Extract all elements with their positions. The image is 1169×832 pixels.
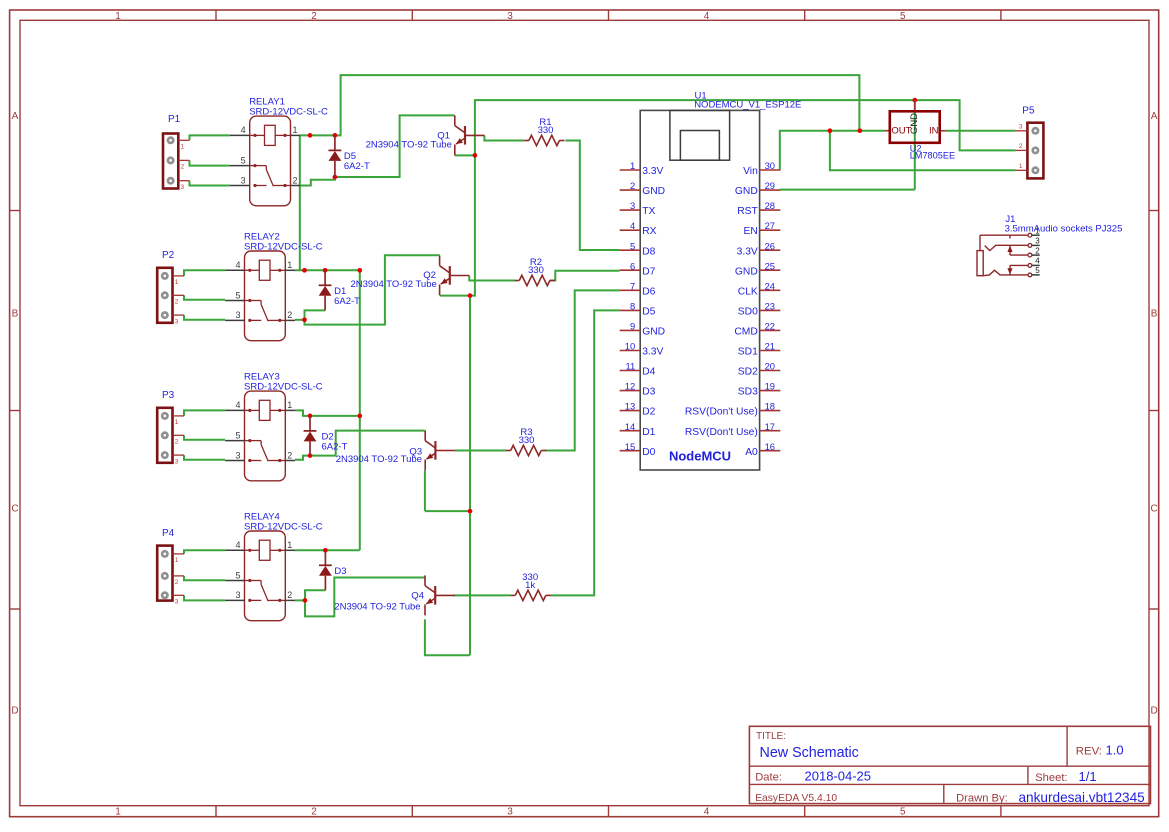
junction bbox=[333, 175, 338, 180]
junction bbox=[323, 548, 328, 553]
svg-text:5: 5 bbox=[900, 807, 906, 818]
Q3 label bbox=[336, 447, 423, 465]
svg-text:2: 2 bbox=[175, 439, 179, 446]
svg-text:12: 12 bbox=[625, 381, 635, 392]
svg-text:D: D bbox=[1150, 706, 1157, 717]
svg-text:2: 2 bbox=[287, 450, 292, 460]
wire bbox=[475, 100, 1016, 155]
resistor R1 bbox=[524, 135, 564, 145]
D3 label bbox=[334, 566, 346, 577]
svg-text:330: 330 bbox=[528, 265, 544, 276]
svg-text:4: 4 bbox=[630, 220, 635, 231]
svg-text:11: 11 bbox=[625, 361, 635, 372]
D1 label bbox=[334, 286, 360, 307]
svg-text:2N3904 TO-92 Tube: 2N3904 TO-92 Tube bbox=[351, 279, 437, 290]
svg-text:Q4: Q4 bbox=[411, 590, 424, 601]
svg-text:2: 2 bbox=[311, 11, 317, 22]
svg-text:D8: D8 bbox=[642, 246, 655, 257]
junction bbox=[302, 268, 307, 273]
svg-text:3: 3 bbox=[1035, 237, 1040, 246]
svg-text:4: 4 bbox=[235, 400, 240, 410]
svg-text:14: 14 bbox=[625, 421, 635, 432]
svg-text:5: 5 bbox=[241, 155, 246, 165]
svg-text:5: 5 bbox=[900, 11, 906, 22]
svg-text:3.3V: 3.3V bbox=[737, 246, 758, 257]
svg-text:RSV(Don't Use): RSV(Don't Use) bbox=[685, 407, 758, 418]
svg-text:8: 8 bbox=[630, 301, 635, 312]
svg-text:P4: P4 bbox=[162, 528, 175, 539]
wire bbox=[184, 595, 225, 600]
D5 label bbox=[344, 151, 370, 172]
svg-text:GND: GND bbox=[642, 186, 665, 197]
RELAY4 label bbox=[244, 512, 323, 533]
svg-text:9: 9 bbox=[630, 321, 635, 332]
svg-text:3: 3 bbox=[175, 318, 179, 325]
wire bbox=[305, 255, 440, 324]
svg-text:330: 330 bbox=[538, 125, 554, 136]
title block text bbox=[755, 731, 1145, 805]
U1 label bbox=[694, 91, 801, 111]
wire bbox=[295, 456, 310, 460]
svg-text:D3: D3 bbox=[642, 387, 655, 398]
svg-text:3: 3 bbox=[630, 200, 635, 211]
transistor Q4 bbox=[425, 575, 455, 615]
junction bbox=[308, 414, 313, 419]
svg-text:D1: D1 bbox=[642, 427, 655, 438]
svg-text:16: 16 bbox=[765, 441, 775, 452]
svg-text:2: 2 bbox=[311, 807, 317, 818]
wire bbox=[453, 594, 511, 596]
svg-text:GND: GND bbox=[735, 266, 758, 277]
svg-text:1: 1 bbox=[287, 400, 292, 410]
svg-text:SRD-12VDC-SL-C: SRD-12VDC-SL-C bbox=[249, 107, 328, 118]
svg-text:5: 5 bbox=[630, 240, 635, 251]
wire bbox=[945, 130, 1016, 132]
svg-text:6A2-T: 6A2-T bbox=[344, 161, 370, 172]
svg-text:1: 1 bbox=[115, 11, 121, 22]
svg-text:A: A bbox=[12, 111, 19, 122]
svg-text:28: 28 bbox=[765, 200, 775, 211]
wire bbox=[914, 100, 916, 190]
svg-text:26: 26 bbox=[765, 240, 775, 251]
svg-text:RSV(Don't Use): RSV(Don't Use) bbox=[685, 427, 758, 438]
svg-text:30: 30 bbox=[765, 160, 775, 171]
svg-text:4: 4 bbox=[235, 540, 240, 550]
U2 label bbox=[910, 143, 955, 160]
wire bbox=[455, 450, 507, 452]
connector P2 bbox=[157, 268, 184, 326]
wire bbox=[425, 619, 470, 655]
svg-text:2: 2 bbox=[293, 175, 298, 185]
svg-text:4: 4 bbox=[704, 11, 710, 22]
wire bbox=[184, 315, 225, 320]
wire bbox=[295, 269, 360, 271]
Q2 label bbox=[351, 270, 437, 290]
svg-text:ankurdesai.vbt12345: ankurdesai.vbt12345 bbox=[1019, 790, 1145, 805]
svg-text:1: 1 bbox=[287, 260, 292, 270]
wire bbox=[469, 296, 471, 656]
svg-text:3.3V: 3.3V bbox=[642, 166, 663, 177]
svg-text:2: 2 bbox=[175, 579, 179, 586]
diode D1 bbox=[319, 270, 332, 310]
diode D2 bbox=[304, 416, 317, 456]
junction bbox=[357, 268, 362, 273]
svg-text:Drawn By:: Drawn By: bbox=[956, 792, 1008, 804]
svg-text:6A2-T: 6A2-T bbox=[322, 441, 348, 452]
svg-text:B: B bbox=[12, 309, 19, 320]
svg-text:4: 4 bbox=[704, 807, 710, 818]
svg-text:B: B bbox=[1151, 309, 1158, 320]
svg-text:5: 5 bbox=[235, 290, 240, 300]
svg-text:2018-04-25: 2018-04-25 bbox=[805, 769, 872, 784]
svg-text:5: 5 bbox=[235, 570, 240, 580]
svg-text:EasyEDA V5.4.10: EasyEDA V5.4.10 bbox=[755, 793, 837, 804]
svg-text:10: 10 bbox=[625, 341, 635, 352]
svg-text:Date:: Date: bbox=[755, 772, 782, 784]
svg-text:D3: D3 bbox=[334, 566, 346, 577]
wire bbox=[830, 131, 1016, 171]
wire bbox=[310, 431, 425, 456]
svg-text:RX: RX bbox=[642, 226, 656, 237]
svg-text:7: 7 bbox=[630, 280, 635, 291]
svg-text:19: 19 bbox=[765, 381, 775, 392]
U2 pin names bbox=[891, 113, 938, 137]
connector P5 bbox=[1016, 123, 1044, 179]
wire bbox=[780, 131, 885, 171]
resistor R4 bbox=[511, 590, 551, 600]
svg-text:NodeMCU: NodeMCU bbox=[669, 448, 731, 463]
svg-text:3: 3 bbox=[175, 458, 179, 465]
svg-text:2: 2 bbox=[175, 299, 179, 306]
svg-text:SRD-12VDC-SL-C: SRD-12VDC-SL-C bbox=[244, 242, 323, 253]
connector P3 bbox=[157, 408, 184, 466]
svg-text:IN: IN bbox=[929, 126, 939, 137]
RELAY2 label bbox=[244, 232, 323, 253]
svg-text:SD0: SD0 bbox=[738, 307, 758, 318]
junction bbox=[468, 509, 473, 514]
title block frame bbox=[749, 726, 1150, 803]
diode D3 bbox=[319, 550, 332, 590]
wire bbox=[551, 310, 620, 595]
svg-text:21: 21 bbox=[765, 341, 775, 352]
connector P4 bbox=[157, 546, 184, 606]
wire bbox=[184, 410, 225, 416]
svg-text:27: 27 bbox=[765, 220, 775, 231]
svg-text:2: 2 bbox=[630, 180, 635, 191]
transistor Q2 bbox=[440, 256, 470, 296]
svg-text:3: 3 bbox=[507, 11, 513, 22]
svg-text:3: 3 bbox=[1019, 123, 1023, 130]
junction bbox=[473, 153, 478, 158]
svg-text:3: 3 bbox=[241, 175, 246, 185]
relay RELAY1 bbox=[230, 116, 301, 206]
wire bbox=[295, 319, 305, 321]
relay RELAY4 bbox=[225, 531, 295, 621]
svg-text:3: 3 bbox=[235, 310, 240, 320]
svg-text:2: 2 bbox=[1035, 246, 1040, 255]
svg-text:CLK: CLK bbox=[738, 286, 758, 297]
svg-text:P1: P1 bbox=[168, 114, 181, 125]
svg-text:17: 17 bbox=[765, 421, 775, 432]
svg-text:Sheet:: Sheet: bbox=[1035, 772, 1067, 784]
wire bbox=[780, 189, 915, 191]
svg-text:3.5mmAudio sockets PJ325: 3.5mmAudio sockets PJ325 bbox=[1005, 223, 1123, 234]
svg-text:5: 5 bbox=[1035, 266, 1040, 275]
svg-text:D2: D2 bbox=[642, 407, 655, 418]
wire bbox=[335, 115, 455, 177]
svg-text:D6: D6 bbox=[642, 286, 655, 297]
svg-text:1k: 1k bbox=[525, 580, 535, 591]
wire bbox=[295, 549, 360, 551]
svg-text:15: 15 bbox=[625, 441, 635, 452]
junction bbox=[303, 598, 308, 603]
svg-text:2N3904 TO-92 Tube: 2N3904 TO-92 Tube bbox=[334, 602, 420, 613]
svg-text:SRD-12VDC-SL-C: SRD-12VDC-SL-C bbox=[244, 382, 323, 393]
svg-text:5: 5 bbox=[235, 430, 240, 440]
wire bbox=[184, 576, 225, 580]
svg-text:4: 4 bbox=[1035, 257, 1040, 266]
svg-text:GND: GND bbox=[735, 186, 758, 197]
svg-text:GND: GND bbox=[642, 327, 665, 338]
svg-text:2N3904 TO-92 Tube: 2N3904 TO-92 Tube bbox=[336, 454, 422, 465]
wire bbox=[550, 271, 620, 281]
svg-text:NODEMCU_V1_ESP12E: NODEMCU_V1_ESP12E bbox=[694, 100, 801, 111]
svg-text:4: 4 bbox=[235, 260, 240, 270]
svg-text:1: 1 bbox=[1019, 163, 1023, 170]
svg-text:2: 2 bbox=[287, 590, 292, 600]
wire bbox=[305, 310, 326, 319]
wire bbox=[184, 270, 225, 276]
junction bbox=[468, 293, 473, 298]
svg-text:SRD-12VDC-SL-C: SRD-12VDC-SL-C bbox=[244, 522, 323, 533]
svg-text:1: 1 bbox=[175, 279, 179, 286]
svg-text:REV:: REV: bbox=[1076, 745, 1102, 757]
svg-text:P2: P2 bbox=[162, 250, 175, 261]
svg-text:1: 1 bbox=[630, 160, 635, 171]
svg-text:D: D bbox=[11, 706, 18, 717]
RELAY3 label bbox=[244, 372, 323, 393]
svg-text:A: A bbox=[1151, 111, 1158, 122]
svg-text:C: C bbox=[1150, 504, 1157, 515]
RELAY1 label bbox=[249, 97, 328, 118]
wire bbox=[545, 290, 620, 450]
svg-text:22: 22 bbox=[765, 321, 775, 332]
junction bbox=[912, 98, 917, 103]
transistor Q3 bbox=[425, 431, 455, 471]
Q4 label bbox=[334, 590, 424, 612]
wire bbox=[184, 435, 225, 440]
svg-text:3: 3 bbox=[507, 807, 513, 818]
wire bbox=[359, 270, 361, 550]
svg-text:2: 2 bbox=[287, 310, 292, 320]
svg-text:6: 6 bbox=[630, 260, 635, 271]
svg-text:2: 2 bbox=[1019, 143, 1023, 150]
svg-text:330: 330 bbox=[519, 435, 535, 446]
junction bbox=[333, 133, 338, 138]
svg-text:6A2-T: 6A2-T bbox=[334, 296, 360, 307]
svg-text:23: 23 bbox=[765, 301, 775, 312]
svg-text:New Schematic: New Schematic bbox=[760, 745, 859, 761]
wire bbox=[300, 177, 335, 186]
svg-text:1: 1 bbox=[287, 540, 292, 550]
svg-text:1.0: 1.0 bbox=[1106, 742, 1124, 757]
D2 label bbox=[322, 432, 348, 453]
svg-text:P3: P3 bbox=[162, 390, 175, 401]
wire bbox=[424, 471, 426, 512]
svg-text:1/1: 1/1 bbox=[1079, 769, 1097, 784]
wire bbox=[295, 599, 305, 601]
R2 label bbox=[528, 257, 544, 276]
wire bbox=[425, 510, 470, 512]
svg-text:D7: D7 bbox=[642, 266, 655, 277]
wire bbox=[440, 295, 470, 297]
svg-text:TX: TX bbox=[642, 206, 655, 217]
Q1 label bbox=[366, 131, 452, 151]
diode D5 bbox=[329, 135, 342, 177]
wire bbox=[565, 141, 619, 251]
svg-text:1: 1 bbox=[175, 419, 179, 426]
svg-text:TITLE:: TITLE: bbox=[756, 731, 786, 742]
regulator U2 body bbox=[885, 100, 946, 143]
wire bbox=[305, 590, 325, 600]
R3 label bbox=[519, 427, 535, 446]
svg-text:D5: D5 bbox=[642, 307, 655, 318]
junction bbox=[857, 128, 862, 133]
svg-text:SD1: SD1 bbox=[738, 347, 758, 358]
svg-text:4: 4 bbox=[241, 125, 246, 135]
svg-text:EN: EN bbox=[743, 226, 757, 237]
wire bbox=[305, 578, 425, 617]
junction bbox=[357, 414, 362, 419]
transistor Q1 bbox=[455, 115, 485, 155]
resistor R3 bbox=[506, 445, 546, 455]
svg-text:3: 3 bbox=[235, 590, 240, 600]
svg-text:1: 1 bbox=[293, 125, 298, 135]
wire bbox=[190, 181, 230, 186]
junction bbox=[828, 128, 833, 133]
wire bbox=[300, 75, 859, 135]
svg-text:3: 3 bbox=[181, 184, 185, 191]
svg-text:3: 3 bbox=[175, 599, 179, 606]
wire bbox=[184, 455, 225, 460]
svg-text:13: 13 bbox=[625, 401, 635, 412]
svg-text:A0: A0 bbox=[745, 447, 758, 458]
audio jack J1 bbox=[977, 226, 1040, 276]
svg-text:C: C bbox=[11, 504, 18, 515]
wire bbox=[455, 154, 475, 156]
svg-text:2N3904 TO-92 Tube: 2N3904 TO-92 Tube bbox=[366, 140, 452, 151]
svg-text:25: 25 bbox=[765, 260, 775, 271]
svg-text:RST: RST bbox=[737, 206, 758, 217]
relay RELAY3 bbox=[225, 391, 295, 481]
J1 label bbox=[1005, 214, 1123, 234]
svg-text:20: 20 bbox=[765, 361, 775, 372]
wire bbox=[484, 135, 524, 140]
resistor R2 bbox=[515, 275, 555, 285]
wire bbox=[184, 550, 225, 554]
svg-text:2: 2 bbox=[181, 164, 185, 171]
junction bbox=[302, 317, 307, 322]
svg-text:1: 1 bbox=[181, 144, 185, 151]
svg-text:D4: D4 bbox=[642, 367, 655, 378]
svg-text:3: 3 bbox=[235, 450, 240, 460]
wire bbox=[469, 276, 515, 281]
wire bbox=[190, 160, 230, 165]
svg-text:1: 1 bbox=[115, 807, 121, 818]
svg-text:24: 24 bbox=[765, 280, 775, 291]
svg-text:Vin: Vin bbox=[743, 166, 758, 177]
R4 label bbox=[522, 572, 538, 591]
svg-text:29: 29 bbox=[765, 180, 775, 191]
wire bbox=[470, 155, 475, 295]
junction bbox=[308, 453, 313, 458]
op-amp U1 body bbox=[640, 110, 759, 470]
svg-text:D0: D0 bbox=[642, 447, 655, 458]
svg-text:LM7805EE: LM7805EE bbox=[910, 150, 955, 160]
R1 label bbox=[538, 117, 554, 136]
U1 pins bbox=[620, 160, 781, 458]
svg-text:SD3: SD3 bbox=[738, 387, 758, 398]
wire bbox=[190, 135, 230, 140]
junction bbox=[308, 133, 313, 138]
wire bbox=[184, 295, 225, 300]
svg-text:P5: P5 bbox=[1022, 106, 1035, 117]
relay RELAY2 bbox=[225, 251, 295, 341]
connector P1 bbox=[163, 134, 190, 191]
svg-text:1: 1 bbox=[175, 557, 179, 564]
svg-text:SD2: SD2 bbox=[738, 367, 758, 378]
svg-text:3.3V: 3.3V bbox=[642, 347, 663, 358]
svg-text:18: 18 bbox=[765, 401, 775, 412]
junction bbox=[323, 268, 328, 273]
svg-text:GND: GND bbox=[909, 113, 920, 134]
wire bbox=[295, 410, 360, 416]
svg-text:CMD: CMD bbox=[734, 327, 757, 338]
wire bbox=[299, 135, 301, 270]
